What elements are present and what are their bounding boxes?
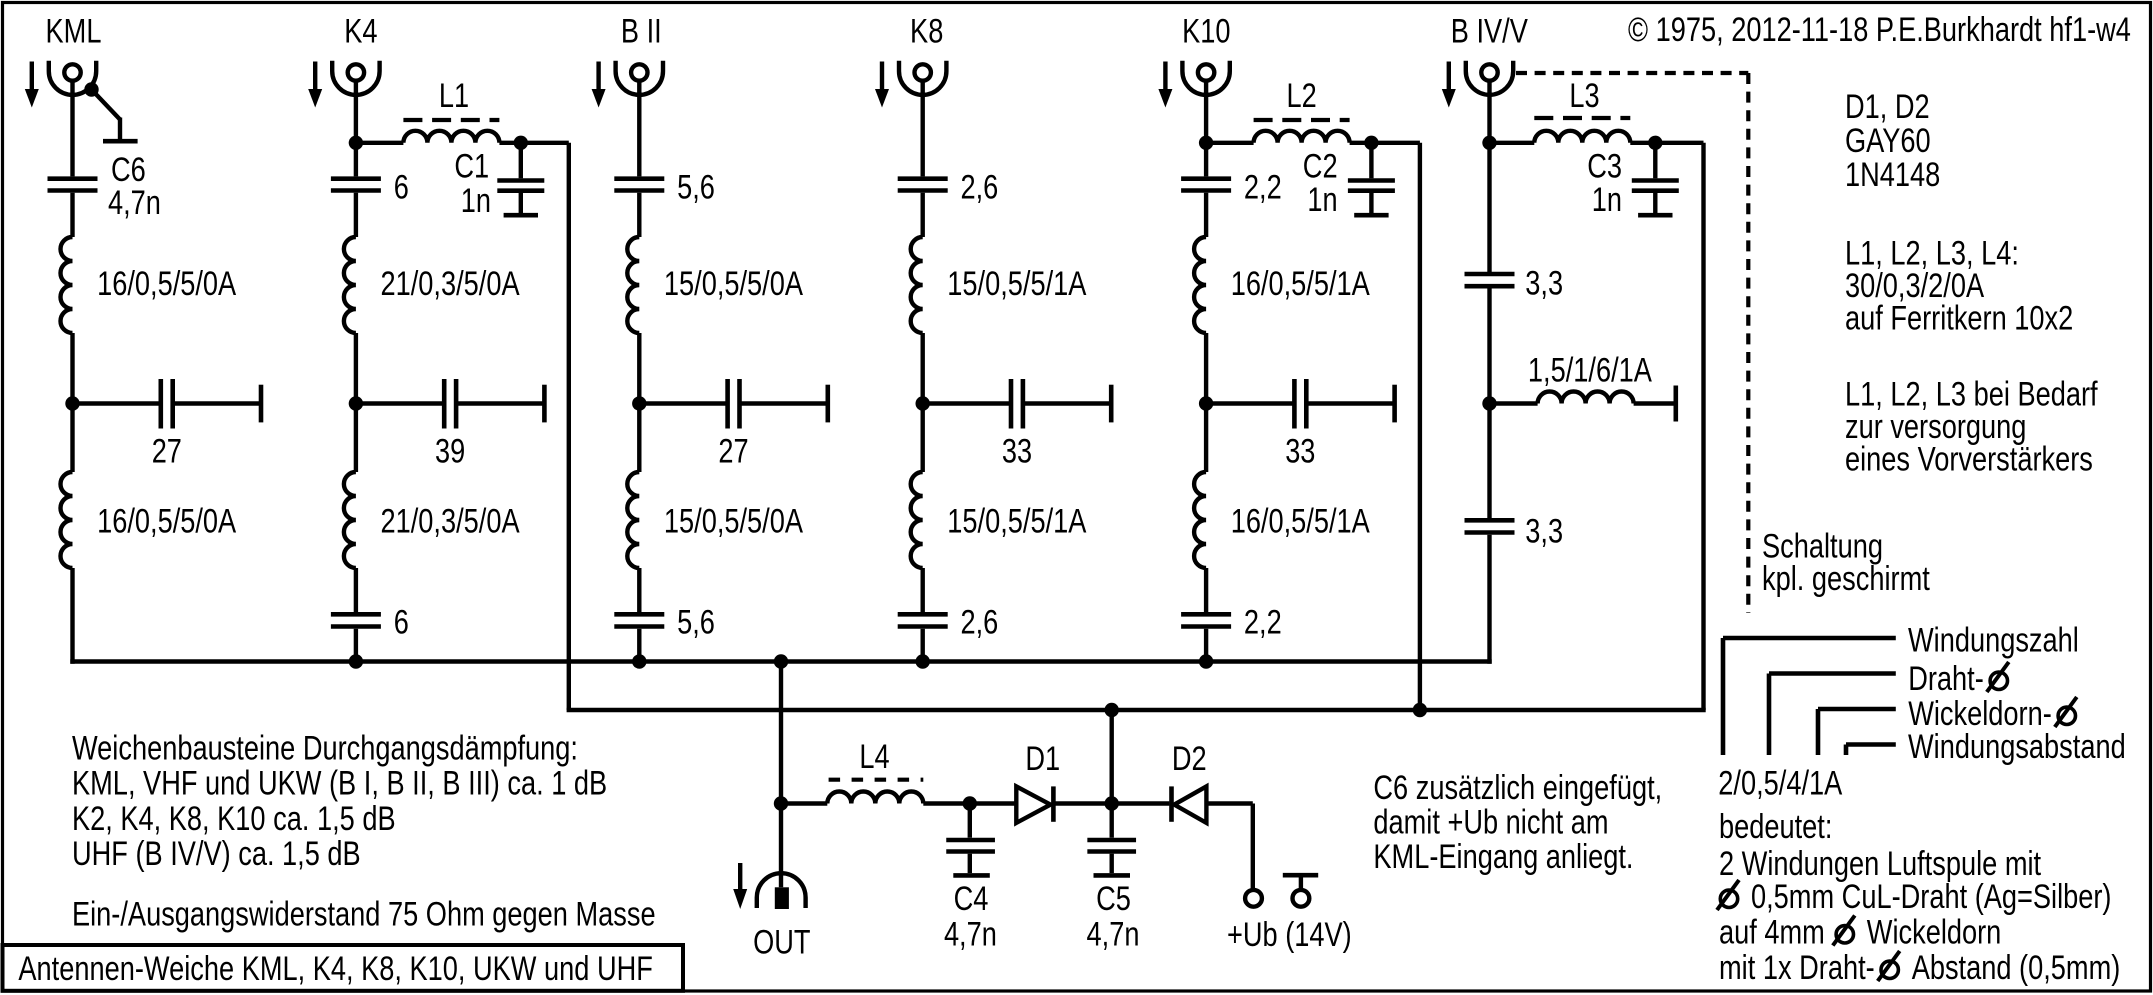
wire to node (B IV/V): [1487, 288, 1491, 403]
svg-text:15/0,5/5/1A: 15/0,5/5/1A: [947, 503, 1086, 541]
wire node to lower coil (B II): [637, 404, 641, 473]
svg-text:auf 4mm: auf 4mm: [1719, 914, 1825, 952]
svg-text:L3: L3: [1569, 77, 1599, 115]
wire node to lower coil (K8): [921, 404, 925, 473]
node C1: [514, 136, 528, 150]
arrow at KML input: [30, 62, 34, 92]
svg-text:Abstand (0,5mm): Abstand (0,5mm): [1912, 949, 2121, 987]
svg-text:Ein-/Ausgangswiderstand 75 Ohm: Ein-/Ausgangswiderstand 75 Ohm gegen Mas…: [72, 896, 656, 934]
svg-text:auf Ferritkern 10x2: auf Ferritkern 10x2: [1845, 300, 2073, 338]
+Ub jack symbol: [1283, 873, 1318, 878]
wire L2 to C2 node: [1350, 141, 1372, 145]
wire lower coil to bottom cap (K8): [921, 568, 925, 612]
svg-text:C3: C3: [1587, 148, 1622, 186]
node K4 / L junction: [349, 136, 363, 150]
arrow at K8 input: [880, 62, 884, 92]
svg-text:D2: D2: [1172, 740, 1207, 778]
wire to upper coil (K10): [1204, 193, 1208, 237]
wire antenna K4 down: [354, 80, 358, 176]
svg-text:33: 33: [1002, 433, 1032, 471]
svg-text:16/0,5/5/1A: 16/0,5/5/1A: [1231, 503, 1370, 541]
svg-text:5,6: 5,6: [677, 604, 715, 642]
svg-text:1,5/1/6/1A: 1,5/1/6/1A: [1528, 352, 1652, 390]
node B IV/V middle: [1482, 396, 1496, 410]
arrow at B II input: [596, 62, 600, 92]
svg-text:6: 6: [394, 604, 409, 642]
svg-text:OUT: OUT: [753, 924, 810, 962]
coupling capacitor 33 (K10): [1206, 401, 1292, 405]
capacitor 2,2 top (K10): [1181, 176, 1231, 181]
svg-text:4,7n: 4,7n: [944, 916, 997, 954]
svg-text:B II: B II: [621, 13, 662, 51]
wire node to lower coil (K10): [1204, 404, 1208, 473]
shield dashed wire vertical: [1746, 73, 1750, 613]
svg-text:Wickeldorn: Wickeldorn: [1867, 914, 2002, 952]
legend fork line Draht diameter: [1767, 674, 1772, 756]
coupling capacitor 27 (B II): [639, 401, 725, 405]
capacitor C5 4,7n: [1109, 804, 1113, 838]
junction K10 on bus1: [1199, 654, 1213, 668]
antenna symbol KML: [49, 61, 96, 95]
wire coil to node (K8): [921, 333, 925, 404]
capacitor C3 1n: [1653, 143, 1657, 179]
capacitor 6 bottom (K4): [331, 612, 381, 617]
node K10 resonator: [1199, 396, 1213, 410]
wire L4 to C4 node: [923, 801, 970, 805]
wire C5 node to D2: [1112, 801, 1170, 805]
wire antenna B IV/V down: [1487, 80, 1491, 272]
shield dashed wire horizontal: [1516, 71, 1748, 75]
svg-text:16/0,5/5/1A: 16/0,5/5/1A: [1231, 265, 1370, 303]
junction B II on bus1: [632, 654, 646, 668]
wire bottom cap to bus1 (B II): [637, 629, 641, 662]
inductor L3 (ferrite choke): [1534, 131, 1630, 143]
coupling capacitor 39 (K4): [356, 401, 442, 405]
svg-text:16/0,5/5/0A: 16/0,5/5/0A: [97, 265, 236, 303]
KML second terminal dot on antenna: [84, 82, 98, 96]
L1 core dashed line: [403, 118, 499, 122]
wire antenna K8 down: [921, 80, 925, 176]
svg-text:UHF (B IV/V) ca. 1,5 dB: UHF (B IV/V) ca. 1,5 dB: [72, 835, 361, 873]
svg-text:16/0,5/5/0A: 16/0,5/5/0A: [97, 503, 236, 541]
svg-text:Windungsabstand: Windungsabstand: [1908, 728, 2126, 766]
capacitor 3,3 top (B IV/V): [1465, 272, 1515, 277]
inductor 21/0,3/5/0A upper (K4): [344, 237, 356, 333]
legend fork line Windungszahl: [1721, 638, 1726, 755]
wire to upper coil (K8): [921, 193, 925, 237]
node K4 resonator: [349, 396, 363, 410]
wire bottom cap to bus1 (K4): [354, 629, 358, 662]
inductor 16/0,5/5/1A upper (K10): [1194, 237, 1206, 333]
svg-text:4,7n: 4,7n: [108, 184, 161, 222]
wire coil to node (K10): [1204, 333, 1208, 404]
wire to upper coil (B II): [637, 193, 641, 237]
junction OUT branch on bus1: [774, 654, 788, 668]
capacitor C1 1n: [519, 143, 523, 179]
capacitor 2,6 top (K8): [898, 176, 948, 181]
inductor 15/0,5/5/0A upper (B II): [627, 237, 639, 333]
L2 core dashed line: [1254, 118, 1350, 122]
svg-text:C4: C4: [954, 880, 989, 918]
svg-text:K2, K4, K8, K10 ca. 1,5 dB: K2, K4, K8, K10 ca. 1,5 dB: [72, 800, 396, 838]
wire to upper coil (K4): [354, 193, 358, 237]
node K10 / L junction: [1199, 136, 1213, 150]
junction K4 on bus1: [349, 654, 363, 668]
inductor 15/0,5/5/1A upper (K8): [911, 237, 923, 333]
svg-text:1n: 1n: [1592, 181, 1622, 219]
svg-text:KML, VHF und UKW (B I, B II, B: KML, VHF und UKW (B I, B II, B III) ca. …: [72, 765, 607, 803]
arrow at B IV/V input: [1447, 62, 1451, 92]
KML stub wire to open terminal: [92, 90, 121, 120]
wire D2 to +Ub terminal: [1206, 801, 1252, 805]
wire coil to node (B II): [637, 333, 641, 404]
wire node to lower coil (KML): [70, 404, 74, 473]
junction on bus2 (C5 branch): [1105, 703, 1119, 717]
node C2: [1364, 136, 1378, 150]
svg-text:5,6: 5,6: [677, 168, 715, 206]
wire C1 node to feed line: [521, 141, 569, 145]
wire bottom cap to bus1 (B IV/V): [1487, 535, 1491, 664]
svg-text:15/0,5/5/0A: 15/0,5/5/0A: [664, 265, 803, 303]
node OUT: [774, 796, 788, 810]
wire coil to node (KML): [70, 333, 74, 404]
svg-text:1n: 1n: [1307, 181, 1337, 219]
wire K4 node to L1: [356, 141, 404, 145]
wire node to bottom cap (B IV/V): [1487, 404, 1491, 519]
inductor 15/0,5/5/0A lower (B II): [627, 472, 639, 568]
node B IV/V / L3 junction: [1482, 136, 1496, 150]
capacitor 3,3 bottom (B IV/V): [1465, 518, 1515, 523]
node C5 / D junction: [1105, 796, 1119, 810]
svg-text:C5: C5: [1096, 880, 1131, 918]
svg-text:27: 27: [152, 433, 182, 471]
arrow at K4 input: [313, 62, 317, 92]
coupling capacitor 27 (KML): [73, 401, 159, 405]
wire bus1 down to OUT node: [779, 662, 783, 888]
feed wire down from C2 to bus2: [1418, 143, 1422, 710]
OUT arrow: [738, 863, 742, 891]
node C4: [963, 796, 977, 810]
svg-text:K4: K4: [344, 13, 377, 51]
svg-text:KML-Eingang anliegt.: KML-Eingang anliegt.: [1373, 838, 1633, 876]
wire lower coil to bus (KML): [70, 568, 74, 664]
svg-text:L4: L4: [859, 738, 889, 776]
wire B IV/V node to L3: [1490, 141, 1535, 145]
wire D1 to C5 node: [1053, 801, 1111, 805]
svg-text:bedeutet:: bedeutet:: [1719, 808, 1832, 846]
antenna symbol B IV/V: [1466, 61, 1513, 95]
inductor L4 (ferrite choke): [827, 792, 923, 804]
svg-text:D1, D2: D1, D2: [1845, 88, 1930, 126]
diode D1: [1016, 786, 1050, 823]
svg-text:3,3: 3,3: [1525, 512, 1563, 550]
capacitor 2,6 bottom (K8): [898, 612, 948, 617]
capacitor C2 1n: [1369, 143, 1373, 179]
capacitor 6 top (K4): [331, 176, 381, 181]
wire C4 node to D1: [970, 801, 1017, 805]
inductor L2 (ferrite choke): [1254, 131, 1350, 143]
wire C6 to coil: [70, 193, 74, 237]
svg-text:2,2: 2,2: [1244, 168, 1282, 206]
L4 core dashed line: [829, 778, 924, 782]
svg-text:2/0,5/4/1A: 2/0,5/4/1A: [1718, 765, 1842, 803]
wire lower coil to bottom cap (B II): [637, 568, 641, 612]
wire antenna K10 down: [1204, 80, 1208, 176]
wire C5 node up to bus2: [1109, 710, 1113, 804]
junction on bus2 (C2 feed): [1413, 703, 1427, 717]
svg-text:B IV/V: B IV/V: [1451, 13, 1528, 51]
wire L3 to C3 node: [1630, 141, 1655, 145]
capacitor 2,2 bottom (K10): [1181, 612, 1231, 617]
svg-text:0,5mm CuL-Draht (Ag=Silber): 0,5mm CuL-Draht (Ag=Silber): [1751, 878, 2112, 916]
inductor 21/0,3/5/0A lower (K4): [344, 472, 356, 568]
antenna symbol K10: [1182, 61, 1229, 95]
svg-text:Draht-: Draht-: [1908, 660, 1984, 698]
svg-text:C1: C1: [454, 148, 489, 186]
svg-text:D1: D1: [1025, 740, 1060, 778]
inductor 1,5/1/6/1A (air coil, B IV/V): [1490, 401, 1538, 405]
wire coil to node (K4): [354, 333, 358, 404]
bus1 common output bus: [70, 659, 1491, 663]
feed wire down from C1 to bus2: [567, 143, 571, 710]
svg-text:GAY60: GAY60: [1845, 122, 1931, 160]
wire antenna B II down: [637, 80, 641, 176]
svg-text:Weichenbausteine Durchgangsdäm: Weichenbausteine Durchgangsdämpfung:: [72, 729, 578, 767]
L3 core dashed line: [1534, 116, 1630, 120]
svg-text:+Ub (14V): +Ub (14V): [1227, 916, 1352, 954]
wire C2 node to feed line: [1371, 141, 1420, 145]
wire lower coil to bottom cap (K10): [1204, 568, 1208, 612]
wire L1 to C1 node: [499, 141, 520, 145]
svg-text:2,2: 2,2: [1244, 604, 1282, 642]
svg-text:15/0,5/5/0A: 15/0,5/5/0A: [664, 503, 803, 541]
feed wire down from C3 to bus2: [1701, 143, 1705, 710]
title box: [3, 945, 684, 991]
junction K8 on bus1: [916, 654, 930, 668]
svg-text:mit 1x Draht-: mit 1x Draht-: [1719, 949, 1875, 987]
inductor 16/0,5/5/0A upper (KML): [61, 237, 73, 333]
svg-text:21/0,3/5/0A: 21/0,3/5/0A: [381, 503, 520, 541]
svg-text:L1: L1: [439, 77, 469, 115]
antenna symbol K4: [332, 61, 379, 95]
svg-text:Antennen-Weiche KML, K4, K8, K: Antennen-Weiche KML, K4, K8, K10, UKW un…: [18, 950, 653, 988]
antenna symbol B II: [616, 61, 663, 95]
wire OUT node to L4: [781, 801, 827, 805]
capacitor 5,6 top (B II): [614, 176, 664, 181]
svg-text:33: 33: [1285, 433, 1315, 471]
svg-text:2,6: 2,6: [961, 604, 999, 642]
node KML resonator: [65, 396, 79, 410]
svg-text:15/0,5/5/1A: 15/0,5/5/1A: [947, 265, 1086, 303]
node C3: [1648, 136, 1662, 150]
inductor 15/0,5/5/1A lower (K8): [911, 472, 923, 568]
svg-text:eines Vorverstärkers: eines Vorverstärkers: [1845, 441, 2093, 479]
bus2 DC feed bus: [567, 708, 1706, 712]
svg-text:C2: C2: [1303, 147, 1338, 185]
+Ub wire-end terminal circle: [1245, 890, 1262, 907]
capacitor 5,6 bottom (B II): [614, 612, 664, 617]
capacitor C4 4,7n: [968, 804, 972, 838]
legend fork line Wickeldorn diameter: [1816, 709, 1821, 755]
antenna symbol K8: [899, 61, 946, 95]
svg-text:4,7n: 4,7n: [1087, 916, 1140, 954]
wire lower coil to bottom cap (K4): [354, 568, 358, 612]
coupling capacitor 33 (K8): [923, 401, 1009, 405]
diode D2: [1169, 786, 1174, 821]
inductor 16/0,5/5/0A lower (KML): [61, 472, 73, 568]
svg-text:Windungszahl: Windungszahl: [1908, 622, 2079, 660]
inductor L1 (ferrite choke): [403, 131, 499, 143]
arrow at K10 input: [1163, 62, 1167, 92]
wire bottom cap to bus1 (K8): [921, 629, 925, 662]
OUT connector symbol: [757, 873, 806, 908]
wire bottom cap to bus1 (K10): [1204, 629, 1208, 662]
wire C3 node to feed line: [1655, 141, 1703, 145]
svg-text:K8: K8: [910, 13, 943, 51]
svg-text:39: 39: [435, 433, 465, 471]
node B II resonator: [632, 396, 646, 410]
capacitor C6 4,7n: [48, 176, 98, 181]
svg-text:1n: 1n: [461, 182, 491, 220]
svg-text:21/0,3/5/0A: 21/0,3/5/0A: [381, 265, 520, 303]
svg-text:damit +Ub nicht am: damit +Ub nicht am: [1373, 804, 1608, 842]
node K8 resonator: [916, 396, 930, 410]
svg-text:1N4148: 1N4148: [1845, 156, 1940, 194]
inductor 16/0,5/5/1A lower (K10): [1194, 472, 1206, 568]
svg-text:kpl. geschirmt: kpl. geschirmt: [1762, 560, 1930, 598]
svg-text:6: 6: [394, 168, 409, 206]
wire node to lower coil (K4): [354, 404, 358, 473]
svg-text:C6 zusätzlich eingefügt,: C6 zusätzlich eingefügt,: [1373, 769, 1662, 807]
svg-text:© 1975, 2012-11-18 P.E.Burkhar: © 1975, 2012-11-18 P.E.Burkhardt hf1-w4: [1628, 11, 2131, 49]
svg-text:K10: K10: [1182, 13, 1230, 51]
svg-text:27: 27: [718, 433, 748, 471]
wire antenna KML to C6: [70, 80, 74, 176]
svg-text:KML: KML: [46, 13, 102, 51]
svg-text:2,6: 2,6: [961, 168, 999, 206]
wire K10 node to L2: [1206, 141, 1254, 145]
svg-text:3,3: 3,3: [1525, 264, 1563, 302]
legend fork line Windungsabstand: [1844, 745, 1849, 756]
svg-text:L2: L2: [1287, 77, 1317, 115]
